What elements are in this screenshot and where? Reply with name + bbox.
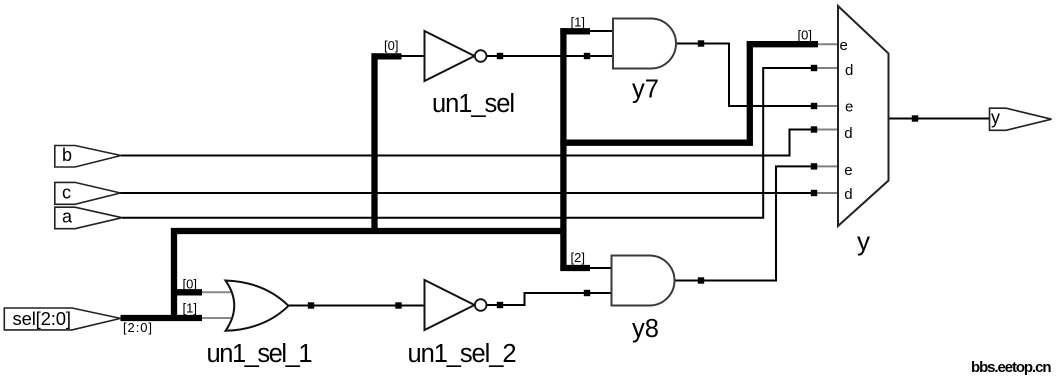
svg-text:[0]: [0]	[798, 28, 812, 43]
svg-text:e: e	[844, 162, 852, 179]
input buffer b	[55, 146, 121, 168]
svg-text:y8: y8	[632, 315, 659, 343]
bus thick wire main horizontal y=231	[171, 228, 566, 234]
bus thick wire vertical riser x=174	[171, 228, 177, 321]
bus thick wire vertical riser x=749.8	[747, 41, 753, 146]
wire gray pin mux input 3 e	[817, 105, 838, 107]
junction dot before y7 lower input	[584, 53, 590, 59]
svg-text:a: a	[62, 207, 73, 227]
wire net y8 output to mux pin e	[676, 166, 812, 280]
wire sel[0] stub to inverter U-un1_sel input	[402, 55, 425, 57]
wire net un1_sel_2 from inverter output to AND y8 lower input	[487, 293, 612, 305]
wire net b from input b to mux pin d	[121, 130, 811, 156]
bus thick wire stub [0] to mux pin e	[747, 41, 818, 47]
input buffer c	[55, 182, 121, 204]
junction dot after un1_sel_2 bubble	[497, 302, 503, 308]
junction dot before y8 lower input	[584, 290, 590, 296]
junction dot mux pin3	[811, 103, 817, 109]
wire gray pin mux input 6 d	[817, 192, 838, 194]
svg-text:[2:0]: [2:0]	[123, 320, 152, 335]
junction dot after y8 output	[698, 277, 704, 283]
svg-text:un1_sel_1: un1_sel_1	[207, 340, 313, 368]
input buffer a	[55, 207, 122, 229]
bus thick wire sel net: sel input stub to OR input [1]	[121, 315, 203, 321]
bus thick wire stub [0] to OR input	[171, 289, 202, 295]
mux y	[838, 6, 889, 226]
svg-text:un1_sel: un1_sel	[432, 90, 515, 118]
wire net c from input c to mux pin d	[120, 192, 811, 194]
junction dot after OR output	[308, 302, 314, 308]
wire gray pin mux input 4 d	[817, 129, 838, 131]
svg-text:d: d	[844, 125, 852, 142]
wire net a from input a to mux pin d	[122, 68, 811, 218]
junction dot after y7 output	[698, 40, 704, 46]
wire net y7 output to mux pin e	[676, 44, 811, 107]
inverter un1_sel_2	[425, 280, 487, 330]
bus thick wire stub [2] to AND y8	[560, 265, 590, 271]
wire gray pin mux input 5 e	[817, 165, 838, 167]
junction dot mux pin2	[811, 65, 817, 71]
wire gray pin OR gate input [0]	[202, 291, 231, 293]
bus thick wire stub [1] to AND y7	[560, 28, 590, 34]
svg-text:y: y	[991, 107, 1000, 127]
wire net un1_sel_1 from OR output to inverter un1_sel_2 input	[289, 305, 425, 307]
svg-text:y: y	[857, 226, 870, 256]
bus thick wire stub [0] to inverter un1_sel	[372, 53, 402, 59]
junction dot mux output	[912, 115, 918, 121]
bus thick wire vertical riser x=374.5	[371, 53, 377, 234]
wire sel[1] stub to AND y7 upper input	[590, 30, 613, 32]
output buffer y	[990, 108, 1052, 130]
input buffer sel[2:0]	[4, 308, 120, 330]
wire gray pin mux input 1 e	[818, 43, 838, 45]
svg-text:bbs.eetop.cn: bbs.eetop.cn	[971, 359, 1052, 376]
svg-text:c: c	[62, 182, 71, 202]
junction dot mux pin5	[811, 163, 817, 169]
svg-text:[2]: [2]	[571, 250, 585, 265]
wire gray pin mux input 2 d	[817, 67, 838, 69]
wire gray pin OR gate input [1]	[202, 317, 231, 319]
or-gate un1_sel_1	[226, 281, 289, 331]
svg-text:e: e	[840, 37, 848, 54]
junction dot mux pin6	[811, 190, 817, 196]
svg-text:[1]: [1]	[183, 301, 197, 316]
junction dot before un1_sel_2 input	[395, 302, 401, 308]
junction dot mux pin4	[811, 126, 817, 132]
svg-text:b: b	[62, 145, 72, 165]
bus thick wire vertical riser x=563.4	[560, 28, 566, 271]
svg-text:[1]: [1]	[571, 15, 585, 30]
and-gate y7	[613, 19, 676, 69]
svg-text:[0]: [0]	[384, 38, 398, 53]
and-gate y8	[612, 256, 675, 306]
junction dot after un1_sel bubble	[497, 53, 503, 59]
svg-text:d: d	[844, 186, 852, 203]
inverter un1_sel	[425, 31, 487, 81]
svg-text:[0]: [0]	[183, 277, 197, 292]
svg-text:sel[2:0]: sel[2:0]	[13, 308, 72, 329]
svg-text:y7: y7	[632, 76, 659, 104]
svg-text:e: e	[845, 98, 853, 115]
wire sel[2] stub to AND y8 upper input	[590, 267, 612, 269]
wire net y from mux output to output buffer y	[889, 118, 990, 120]
svg-text:d: d	[845, 62, 853, 79]
svg-text:un1_sel_2: un1_sel_2	[408, 340, 517, 368]
wire net un1_sel from inverter output to AND y7 input	[487, 55, 613, 57]
bus thick wire horizontal y=142.7	[560, 140, 752, 146]
